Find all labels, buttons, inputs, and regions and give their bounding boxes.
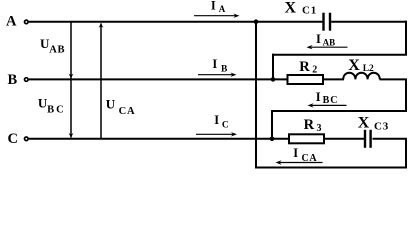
current arrow I_AB: [311, 46, 348, 48]
node C junction dot: [270, 137, 275, 142]
wire R2 to inductor XL2: [323, 78, 344, 80]
svg-text:R: R: [304, 117, 315, 133]
svg-text:2: 2: [312, 64, 317, 75]
wire phase A from terminal to capacitor XC1: [29, 21, 323, 23]
resistor R3 body: [289, 134, 324, 143]
svg-text:B: B: [8, 72, 18, 88]
capacitor XC3 left plate: [364, 130, 366, 148]
arrowhead U_AB pointing down at B line: [69, 74, 74, 79]
wire R3 to capacitor XC3: [324, 138, 364, 140]
svg-text:X: X: [285, 0, 297, 17]
wire AB loop bottom horizontal: [272, 54, 407, 56]
svg-text:A: A: [219, 4, 226, 14]
wire phase B from terminal to resistor R2: [29, 78, 289, 80]
resistor R2 body: [288, 75, 324, 84]
current arrow I_C: [196, 133, 233, 135]
wire BC branch return vertical to node C: [271, 110, 273, 139]
capacitor XC1 left plate: [322, 13, 324, 31]
svg-text:U: U: [106, 97, 116, 112]
current arrow I_CA: [280, 162, 323, 164]
wire BC loop right vertical: [405, 79, 407, 111]
svg-text:I: I: [316, 90, 321, 104]
svg-text:I: I: [212, 57, 217, 71]
wire XC3 to CA loop corner: [373, 138, 408, 140]
wire phase C from terminal to resistor R3: [29, 138, 290, 140]
svg-text:R: R: [299, 59, 310, 75]
svg-text:C3: C3: [374, 120, 389, 132]
svg-text:I: I: [211, 0, 216, 13]
arrowhead U_CA pointing up at A line: [99, 23, 104, 28]
current arrow I_BC: [312, 104, 347, 106]
svg-text:3: 3: [317, 123, 322, 134]
svg-text:CA: CA: [119, 106, 136, 117]
svg-text:BC: BC: [47, 104, 66, 115]
svg-text:I: I: [214, 113, 219, 127]
svg-text:I: I: [293, 146, 298, 160]
capacitor XC3 right plate: [369, 130, 371, 148]
svg-text:C: C: [8, 131, 18, 147]
terminal C: [25, 137, 29, 141]
svg-text:BC: BC: [323, 95, 339, 106]
current arrow I_B: [198, 74, 233, 76]
wire XL2 to BC loop corner: [380, 78, 408, 80]
wire CA loop bottom horizontal: [255, 167, 407, 169]
inductor XL2: [343, 73, 380, 80]
current arrow I_A: [194, 15, 236, 17]
voltage arrow line U_CA: [100, 23, 102, 138]
node B junction dot: [271, 77, 276, 82]
svg-text:AB: AB: [323, 37, 336, 47]
wire CA loop right vertical: [405, 139, 407, 168]
svg-text:AB: AB: [49, 44, 65, 55]
svg-text:X: X: [358, 115, 370, 132]
svg-text:X: X: [348, 57, 360, 74]
wire AB branch return vertical to node B: [272, 54, 274, 80]
svg-text:C: C: [222, 121, 229, 131]
voltage arrow line U_AB / U_BC: [70, 22, 72, 138]
capacitor XC1 right plate: [329, 13, 331, 31]
svg-text:C1: C1: [302, 4, 317, 16]
wire BC loop bottom horizontal: [271, 110, 407, 112]
wire CA branch return vertical up to node A: [255, 22, 257, 169]
wire AB loop right vertical: [405, 21, 407, 55]
terminal A: [25, 20, 29, 24]
wire XC1 to AB loop top-right corner: [331, 21, 407, 23]
terminal B: [25, 78, 29, 82]
arrowhead U_BC pointing down at C line: [69, 133, 74, 138]
svg-text:I: I: [316, 32, 321, 46]
node A junction dot: [254, 19, 259, 24]
svg-text:B: B: [221, 65, 228, 75]
svg-text:A: A: [6, 13, 17, 29]
svg-text:L2: L2: [363, 64, 374, 74]
